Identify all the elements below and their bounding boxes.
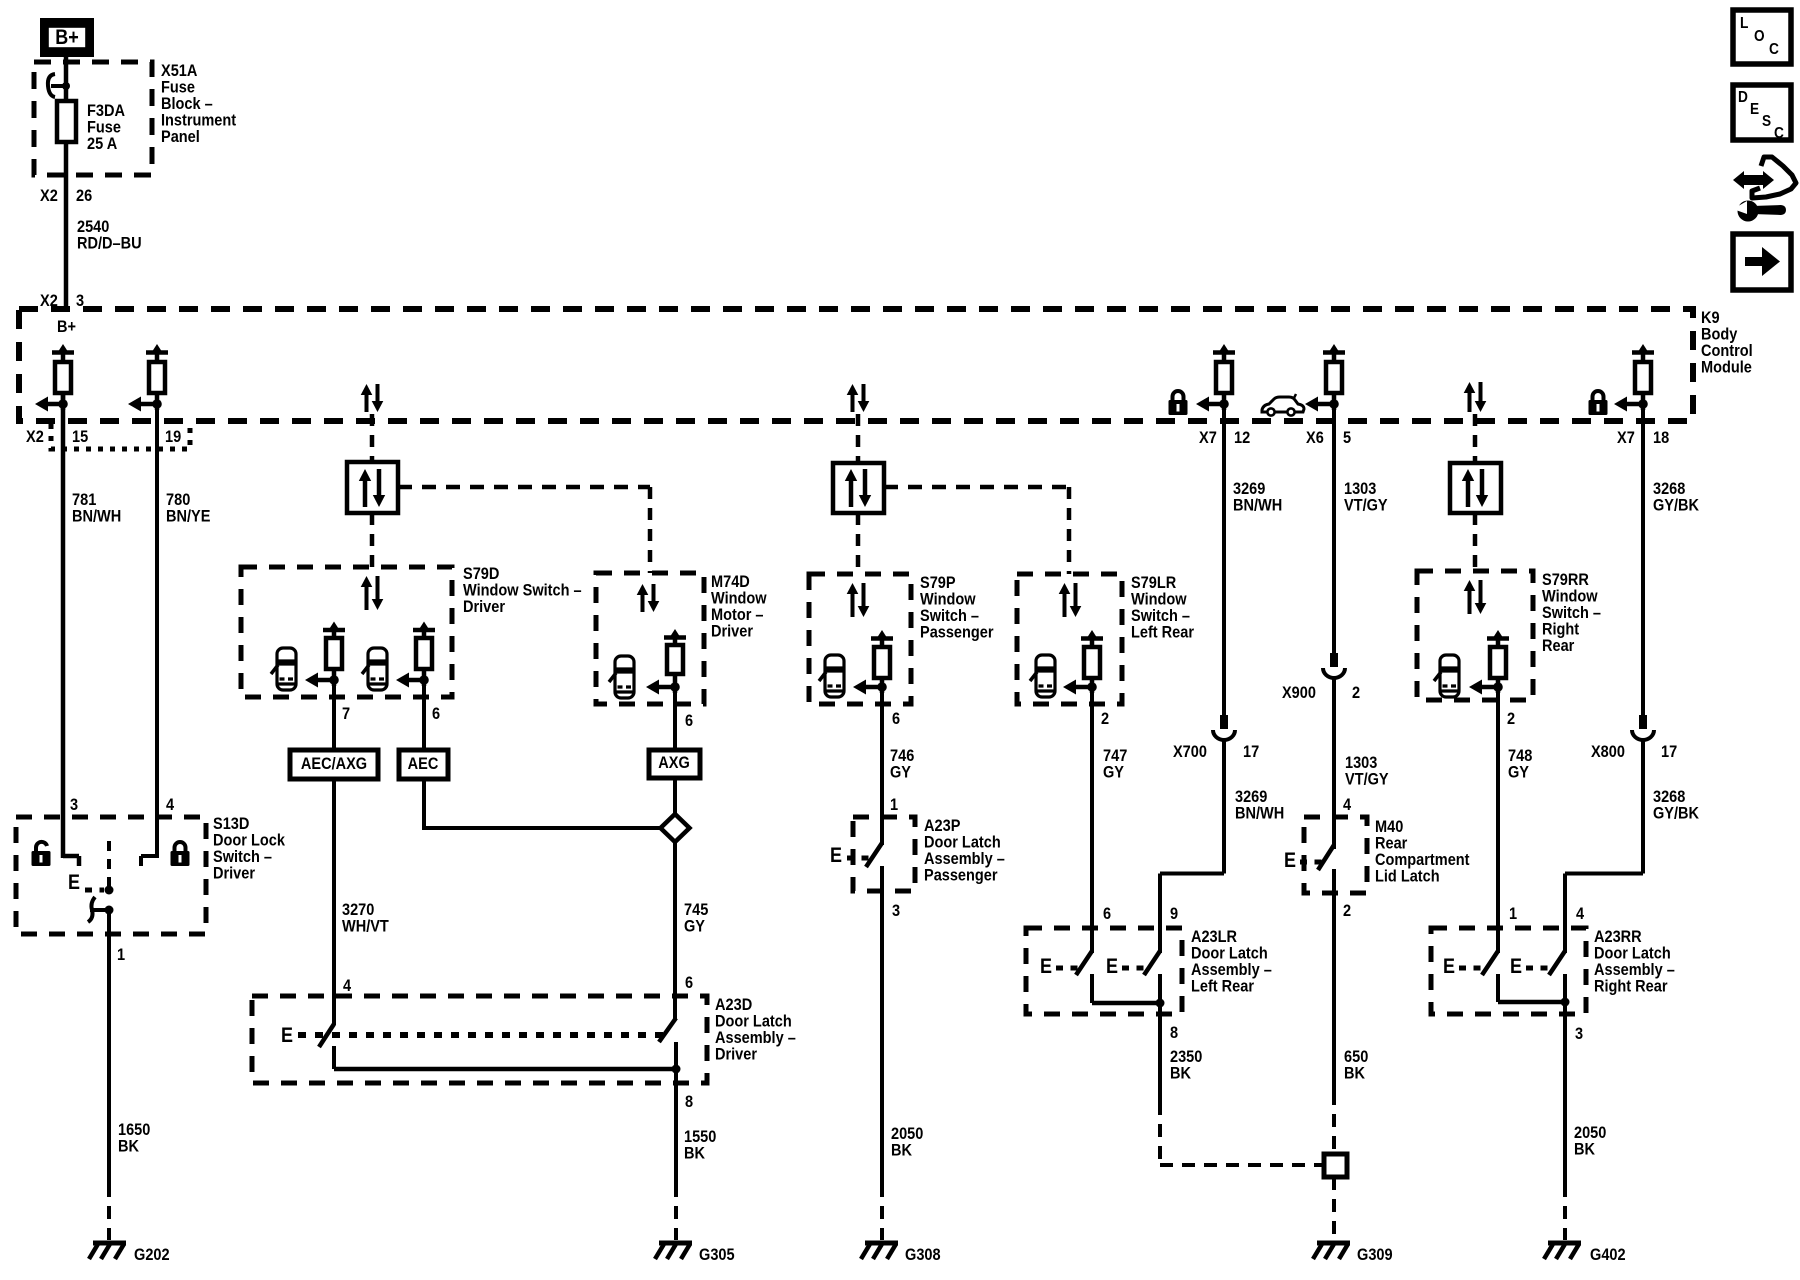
- BCM K9 dashed box: [19, 309, 1693, 421]
- ground G402: [1548, 1241, 1581, 1246]
- wire AEC to diamond junction: [422, 779, 426, 830]
- mechanical dashed link A23RR left: [1459, 966, 1482, 971]
- svg-text:G202: G202: [134, 1245, 170, 1264]
- svg-text:X900: X900: [1282, 683, 1316, 702]
- switch contact M74D pin6: [664, 635, 686, 640]
- svg-text:G402: G402: [1590, 1245, 1626, 1264]
- dashed link BCM to arrows box S79D: [370, 414, 375, 462]
- svg-text:X800: X800: [1591, 742, 1625, 761]
- ground G202: [93, 1241, 126, 1246]
- svg-text:X2: X2: [40, 186, 58, 205]
- mechanical dashed link S13D: [85, 888, 104, 893]
- wire 1650 BK: [107, 910, 111, 1184]
- svg-text:C: C: [1769, 41, 1779, 58]
- switch contact S79D pin7: [323, 628, 345, 633]
- arrows inside S79LR: [1063, 592, 1067, 617]
- car icon S79P: [819, 655, 844, 697]
- svg-text:3: 3: [76, 291, 84, 310]
- svg-text:2: 2: [1101, 709, 1109, 728]
- BCM driver output 1 (wire 781): [52, 350, 74, 355]
- padlock locked icon S13D: [175, 842, 186, 851]
- wire 746 GY: [880, 677, 884, 845]
- switch contact S79P: [871, 636, 893, 641]
- door latch A23D box: [252, 996, 707, 1083]
- splice pack AXG: [649, 750, 700, 778]
- svg-text:19: 19: [165, 427, 181, 446]
- svg-text:3: 3: [892, 901, 900, 920]
- rear lid latch M40 box: [1304, 817, 1367, 893]
- svg-text:7: 7: [342, 704, 350, 723]
- svg-text:5: 5: [1343, 428, 1351, 447]
- svg-text:GY/BK: GY/BK: [1653, 804, 1700, 823]
- svg-text:WH/VT: WH/VT: [342, 917, 389, 936]
- arrows inside S79RR: [1468, 589, 1472, 614]
- svg-text:18: 18: [1653, 428, 1669, 447]
- svg-text:Rear: Rear: [1542, 636, 1575, 655]
- svg-text:GY: GY: [1508, 763, 1530, 782]
- svg-text:E: E: [1443, 955, 1455, 978]
- wire dashed to G202: [107, 1184, 111, 1240]
- wire 745 GY: [673, 842, 677, 1020]
- wire 1303 VT/GY lower: [1332, 679, 1336, 849]
- svg-text:17: 17: [1661, 742, 1677, 761]
- mechanical dashed stub S13D: [107, 841, 111, 888]
- svg-text:E: E: [281, 1024, 293, 1047]
- car icon S79RR: [1434, 655, 1459, 697]
- ground G309: [1317, 1241, 1350, 1246]
- wire A23LR internal junction: [1090, 974, 1094, 1003]
- padlock locked icon BCM X7-18: [1593, 391, 1604, 400]
- wire B+ to fuse block: [64, 57, 69, 102]
- svg-text:26: 26: [76, 186, 92, 205]
- icon box DESC: [1733, 85, 1791, 140]
- wire 3269 jog to A23LR pin9: [1160, 872, 1224, 876]
- svg-text:4: 4: [1576, 904, 1585, 923]
- svg-text:8: 8: [685, 1092, 693, 1111]
- window switch S79LR box: [1017, 574, 1122, 704]
- svg-text:6: 6: [685, 973, 693, 992]
- svg-text:G309: G309: [1357, 1245, 1393, 1264]
- BCM driver output trunk (wire 1303): [1323, 350, 1345, 355]
- svg-text:G308: G308: [905, 1245, 941, 1264]
- svg-text:Panel: Panel: [161, 127, 200, 146]
- splice node on ground wire: [1324, 1154, 1347, 1177]
- svg-text:1: 1: [890, 795, 898, 814]
- wire 1303 VT/GY from BCM: [1332, 404, 1336, 653]
- dashed link arrows box to S79RR: [1473, 513, 1478, 571]
- wire dashed to G305: [674, 1184, 678, 1240]
- wire 3268 jog to A23RR pin4: [1565, 872, 1643, 876]
- switch lever S13D: [88, 897, 95, 922]
- arrows inside M74D: [641, 593, 645, 612]
- icon box LOC: [1733, 10, 1791, 64]
- door lock switch S13D box: [16, 817, 206, 934]
- window motion arrows box S79D: [347, 462, 398, 513]
- splice pack AEC: [399, 750, 448, 779]
- svg-text:X7: X7: [1199, 428, 1217, 447]
- dashed link BCM to arrows box S79RR: [1473, 414, 1478, 463]
- svg-text:VT/GY: VT/GY: [1345, 770, 1389, 789]
- svg-text:6: 6: [1103, 904, 1111, 923]
- svg-text:15: 15: [72, 427, 88, 446]
- arrows inside S79P: [851, 592, 855, 617]
- car icon S79D right: [362, 648, 387, 690]
- svg-text:E: E: [1750, 101, 1759, 118]
- wire 780 BN/YE: [155, 393, 159, 858]
- switch blade A23D right: [659, 1018, 676, 1042]
- switch blade A23P: [866, 843, 882, 867]
- dashed link arrows box to S79LR: [884, 485, 1069, 490]
- connector X2 dotted box: [51, 424, 190, 449]
- svg-text:GY: GY: [890, 763, 912, 782]
- svg-text:Driver: Driver: [213, 864, 255, 883]
- svg-text:GY: GY: [1103, 763, 1125, 782]
- battery terminal B+: [40, 18, 94, 57]
- door latch A23LR box: [1026, 928, 1182, 1014]
- padlock locked icon BCM X7-12: [1173, 391, 1184, 400]
- svg-text:12: 12: [1234, 428, 1250, 447]
- BCM driver output lock (wire 3269): [1213, 350, 1235, 355]
- door latch A23RR box: [1431, 928, 1586, 1014]
- svg-text:L: L: [1740, 15, 1749, 32]
- switch blade M40: [1318, 845, 1334, 870]
- switch contact S79RR: [1487, 636, 1509, 641]
- switch blade A23D left: [319, 1024, 334, 1047]
- svg-text:Driver: Driver: [463, 597, 505, 616]
- mechanical dashed link A23P: [847, 856, 874, 861]
- svg-text:4: 4: [343, 976, 352, 995]
- BCM window arrows above S79P feed: [851, 393, 855, 412]
- svg-text:X2: X2: [26, 427, 44, 446]
- svg-text:Driver: Driver: [711, 622, 753, 641]
- svg-text:VT/GY: VT/GY: [1344, 496, 1388, 515]
- svg-text:E: E: [68, 871, 80, 894]
- wire A23P pin3 out: [880, 866, 884, 1184]
- wire A23RR internal junction: [1496, 974, 1500, 1002]
- svg-text:B+: B+: [55, 26, 79, 49]
- car icon S79D left: [271, 648, 296, 690]
- wire AXG to diamond: [673, 778, 677, 815]
- dashed link arrows box to M74D: [398, 485, 650, 490]
- svg-text:D: D: [1738, 89, 1748, 106]
- wire 3268 GY/BK from BCM: [1641, 404, 1645, 715]
- connector X700: [1220, 715, 1228, 729]
- connector terminal hook in fuse block: [48, 74, 55, 97]
- svg-text:BN/WH: BN/WH: [1233, 496, 1282, 515]
- svg-text:2: 2: [1343, 901, 1351, 920]
- wire 3270 WH/VT: [332, 779, 336, 1025]
- fuse block X51A box: [34, 62, 152, 175]
- padlock unlocked icon S13D: [36, 842, 47, 851]
- BCM driver output 2 (wire 780): [146, 350, 168, 355]
- svg-text:6: 6: [892, 709, 900, 728]
- svg-text:GY/BK: GY/BK: [1653, 496, 1700, 515]
- window motion arrows box S79RR: [1450, 463, 1501, 513]
- svg-text:RD/D–BU: RD/D–BU: [77, 234, 142, 253]
- wire 3269 BN/WH from BCM: [1222, 404, 1226, 715]
- svg-text:BK: BK: [1344, 1064, 1366, 1083]
- wire dashed splice to G309: [1332, 1177, 1336, 1240]
- switch blade A23RR left: [1482, 951, 1498, 975]
- switch contact S79D pin6: [413, 628, 435, 633]
- mechanical dashed link A23D: [298, 1032, 668, 1038]
- wire dashed to G308: [880, 1184, 884, 1240]
- connector X900: [1330, 653, 1338, 667]
- svg-text:O: O: [1754, 28, 1765, 45]
- svg-text:E: E: [1510, 955, 1522, 978]
- mechanical dashed link A23RR right: [1526, 966, 1550, 971]
- fuse F3DA 25 A: [57, 101, 76, 142]
- car icon M74D: [609, 656, 634, 698]
- svg-text:1: 1: [1509, 904, 1517, 923]
- wire 2540 RD/D-BU fuse to BCM: [64, 142, 69, 309]
- svg-text:Left Rear: Left Rear: [1131, 623, 1194, 642]
- diamond junction node: [661, 814, 690, 842]
- wire dashed to G402: [1563, 1184, 1567, 1240]
- svg-text:3: 3: [70, 795, 78, 814]
- svg-text:B+: B+: [57, 317, 76, 336]
- wire 3268 GY/BK lower: [1641, 741, 1645, 874]
- svg-text:2: 2: [1507, 709, 1515, 728]
- svg-text:E: E: [1040, 955, 1052, 978]
- svg-text:25 A: 25 A: [87, 134, 117, 153]
- dashed link arrows box to S79D: [370, 513, 375, 567]
- wire A23RR pin3 out: [1563, 974, 1567, 1184]
- wire 3269 BN/WH lower: [1222, 741, 1226, 874]
- BCM driver output lock (wire 3268): [1632, 350, 1654, 355]
- svg-text:6: 6: [432, 704, 440, 723]
- icon hand with double arrow and wrench: [1742, 175, 1766, 185]
- wire 747 GY: [1090, 677, 1094, 953]
- svg-text:9: 9: [1170, 904, 1178, 923]
- dashed link BCM to arrows box S79P: [856, 414, 861, 463]
- svg-text:C: C: [1774, 125, 1784, 142]
- svg-text:BK: BK: [118, 1137, 140, 1156]
- dashed link arrows box to S79P: [856, 513, 861, 574]
- wire A23D pin8 out: [674, 1042, 678, 1184]
- svg-text:BK: BK: [1574, 1140, 1596, 1159]
- wire 650 BK dashed to splice: [1332, 1092, 1336, 1154]
- svg-text:Left Rear: Left Rear: [1191, 977, 1254, 996]
- wire S79D pin7 to AEC/AXG: [332, 669, 336, 750]
- svg-text:X700: X700: [1173, 742, 1207, 761]
- svg-text:AEC: AEC: [408, 754, 439, 773]
- wire 781 BN/WH: [61, 393, 66, 858]
- svg-text:Passenger: Passenger: [920, 623, 994, 642]
- wire 650 BK: [1332, 869, 1336, 1092]
- splice pack AEC/AXG: [290, 750, 378, 779]
- mechanical dashed link A23LR right: [1122, 966, 1146, 971]
- window switch S79RR box: [1417, 571, 1533, 700]
- svg-text:BK: BK: [684, 1144, 706, 1163]
- mechanical dashed link A23LR left: [1056, 966, 1078, 971]
- switch blade A23LR right: [1144, 951, 1160, 975]
- svg-text:6: 6: [685, 711, 693, 730]
- svg-text:GY: GY: [684, 917, 706, 936]
- connector X800: [1639, 715, 1647, 729]
- BCM window arrows above S79D feed: [365, 393, 369, 412]
- wire A23D internal to junction: [332, 1046, 336, 1069]
- svg-text:Driver: Driver: [715, 1045, 757, 1064]
- switch contact S79LR: [1081, 636, 1103, 641]
- wire 748 GY: [1496, 677, 1500, 953]
- svg-text:3: 3: [1575, 1024, 1583, 1043]
- ground G305: [659, 1241, 692, 1246]
- svg-text:Lid Latch: Lid Latch: [1375, 867, 1440, 886]
- wire 2350 BK dashed to splice: [1158, 1102, 1162, 1165]
- switch blade A23RR right: [1549, 951, 1565, 975]
- svg-text:8: 8: [1170, 1023, 1178, 1042]
- icon box arrow: [1733, 234, 1791, 290]
- window motion arrows box S79P: [833, 463, 884, 513]
- arrows inside S79D: [365, 585, 369, 610]
- svg-text:4: 4: [1343, 795, 1352, 814]
- svg-text:Passenger: Passenger: [924, 866, 998, 885]
- svg-text:Module: Module: [1701, 358, 1752, 377]
- svg-text:X7: X7: [1617, 428, 1635, 447]
- svg-text:X6: X6: [1306, 428, 1324, 447]
- svg-text:E: E: [1106, 955, 1118, 978]
- svg-text:E: E: [830, 844, 842, 867]
- BCM window arrows above S79RR feed: [1468, 391, 1472, 412]
- window switch S79P box: [809, 574, 911, 704]
- wire S79D pin6 to AEC: [422, 669, 426, 750]
- svg-text:4: 4: [166, 795, 175, 814]
- svg-text:Right Rear: Right Rear: [1594, 977, 1668, 996]
- svg-text:1: 1: [117, 945, 125, 964]
- window motor M74D box: [596, 573, 704, 704]
- svg-text:E: E: [1284, 849, 1296, 872]
- svg-text:AXG: AXG: [658, 753, 690, 772]
- svg-text:AEC/AXG: AEC/AXG: [301, 754, 367, 773]
- switch blade A23LR left: [1076, 951, 1092, 975]
- window switch S79D box: [241, 567, 452, 697]
- svg-text:BN/WH: BN/WH: [72, 507, 121, 526]
- door latch A23P box: [853, 817, 915, 891]
- svg-text:17: 17: [1243, 742, 1259, 761]
- svg-text:2: 2: [1352, 683, 1360, 702]
- svg-text:BK: BK: [1170, 1064, 1192, 1083]
- car side icon BCM X6-5: [1262, 397, 1304, 412]
- svg-text:BN/YE: BN/YE: [166, 507, 210, 526]
- ground G308: [865, 1241, 898, 1246]
- svg-text:G305: G305: [699, 1245, 735, 1264]
- wire M74D pin6 to AXG: [673, 674, 677, 750]
- svg-text:BK: BK: [891, 1141, 913, 1160]
- svg-text:BN/WH: BN/WH: [1235, 804, 1284, 823]
- car icon S79LR: [1030, 655, 1055, 697]
- mechanical dashed link M40: [1300, 860, 1326, 865]
- svg-text:S: S: [1762, 113, 1771, 130]
